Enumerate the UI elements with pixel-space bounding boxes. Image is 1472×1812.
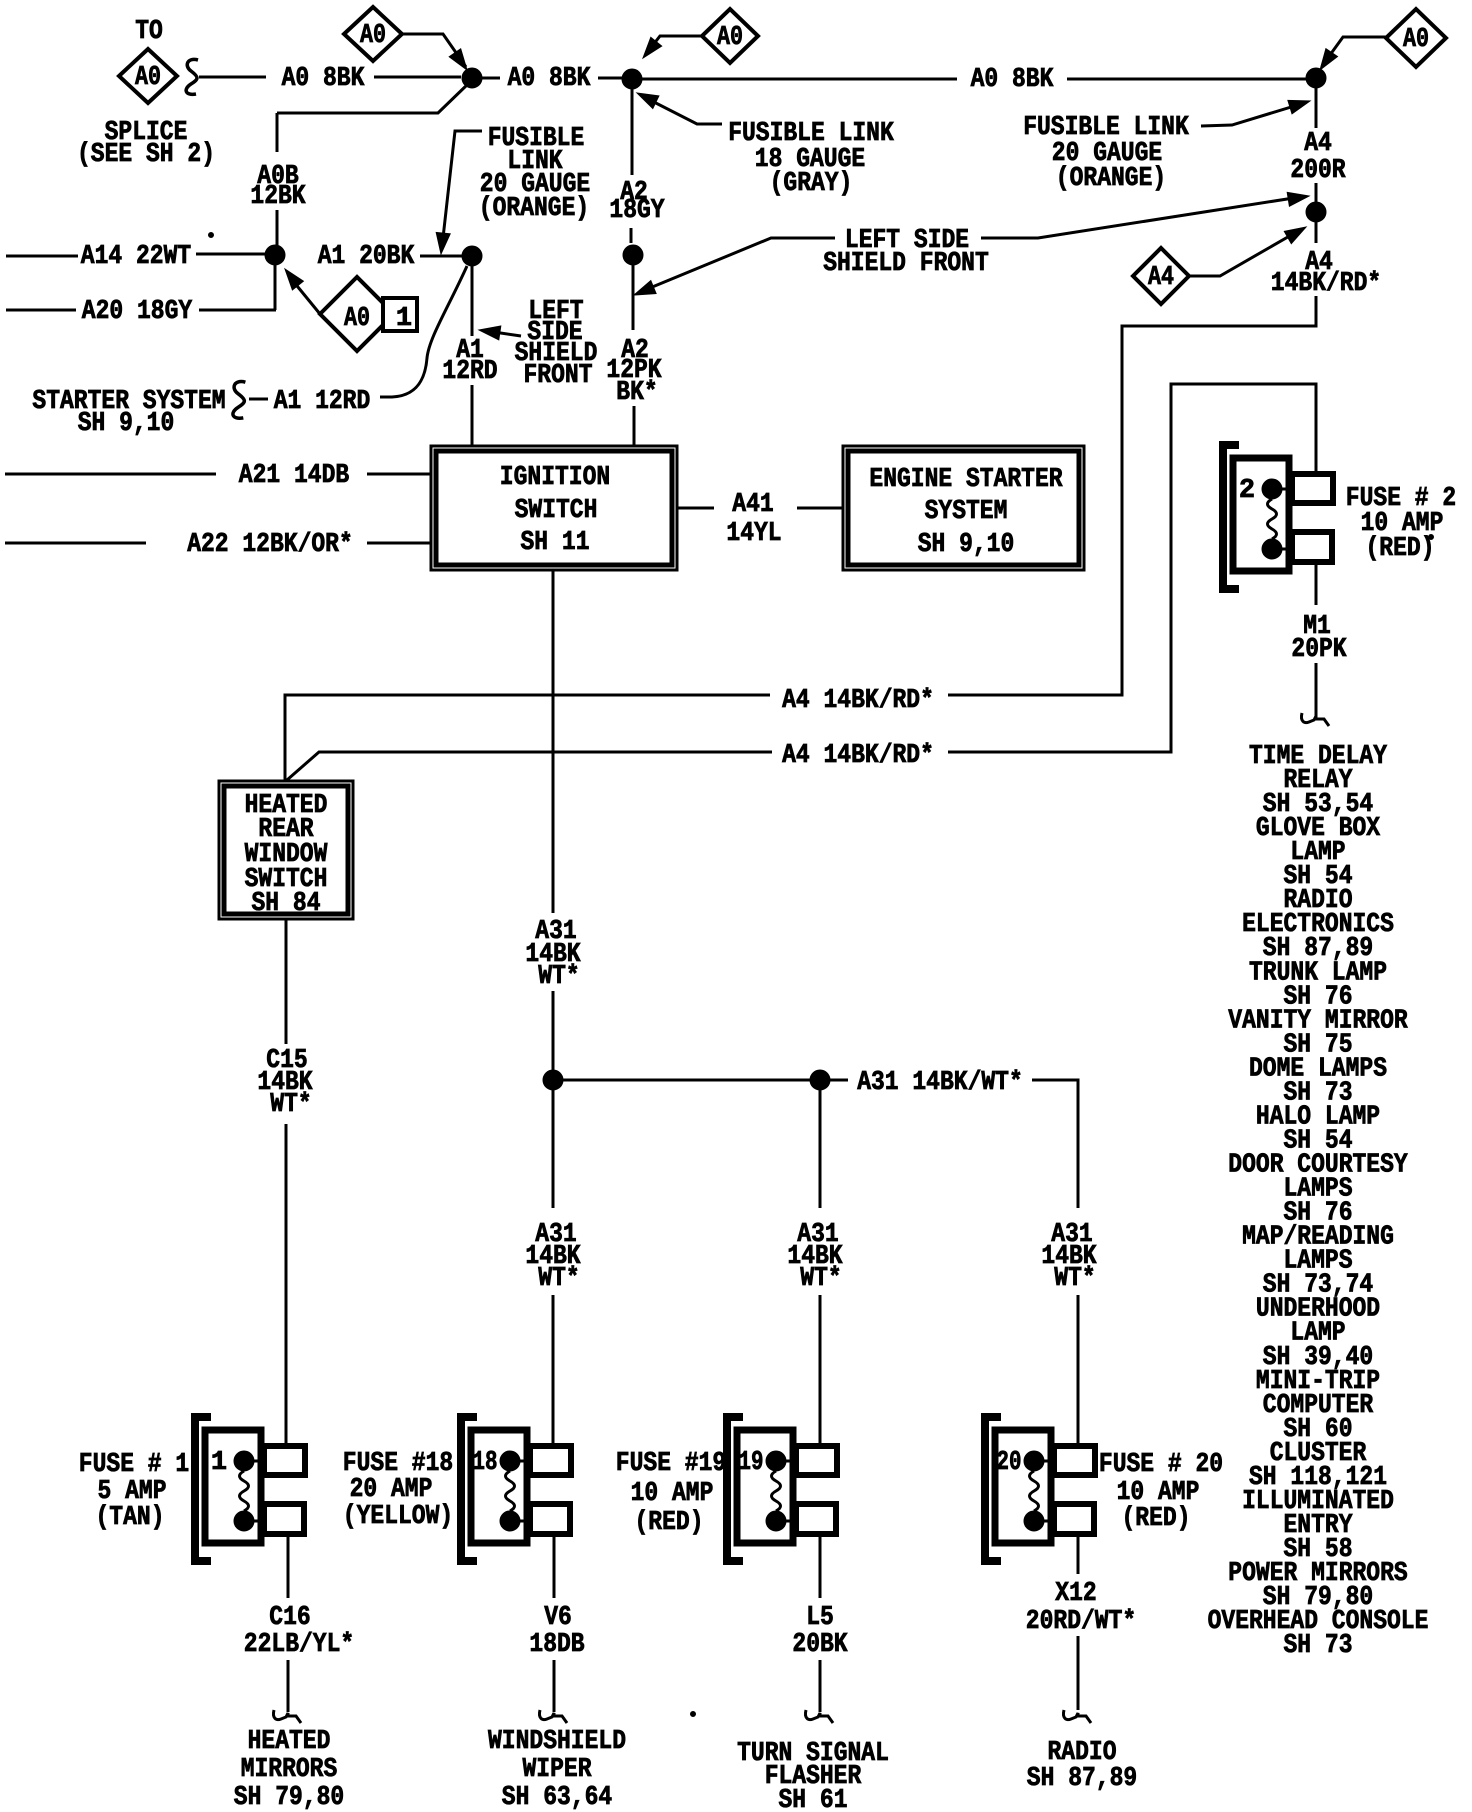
svg-text:20: 20: [997, 1448, 1022, 1478]
junction J4: [265, 245, 285, 265]
svg-text:20BK: 20BK: [792, 1630, 848, 1660]
speck: [209, 233, 214, 238]
wire A4 to corner: [948, 296, 1316, 695]
svg-text:WT*: WT*: [800, 1264, 841, 1294]
svg-text:A1 20BK: A1 20BK: [318, 242, 415, 272]
fuse F2 holder: [1223, 445, 1333, 589]
engine starter system box: [843, 446, 1084, 570]
junction J1: [462, 68, 482, 88]
wire A14 stub: [6, 255, 78, 258]
junction J2: [622, 69, 642, 89]
svg-text:(ORANGE): (ORANGE): [479, 194, 589, 224]
svg-text:22LB/YL*: 22LB/YL*: [244, 1630, 354, 1660]
wire A0 8BK segment: [374, 76, 461, 79]
svg-text:SH 11: SH 11: [521, 528, 590, 558]
ignition switch box: [431, 446, 677, 570]
fuse F20 holder: [985, 1417, 1095, 1561]
arrowhead to A1 12RD wire: [479, 326, 501, 340]
svg-text:A4 14BK/RD*: A4 14BK/RD*: [782, 686, 934, 716]
pointer orange-left: [443, 131, 482, 238]
wire A31 to corner: [1032, 1080, 1078, 1208]
wire A21 stub: [5, 473, 216, 476]
svg-text:A4: A4: [1304, 129, 1332, 159]
svg-text:A0 8BK: A0 8BK: [282, 64, 365, 94]
svg-text:SH 63,64: SH 63,64: [502, 1783, 612, 1812]
svg-text:200R: 200R: [1290, 156, 1346, 186]
speck: [691, 1712, 696, 1717]
continuation mark C16: [273, 1710, 301, 1723]
svg-text:WT*: WT*: [270, 1090, 311, 1120]
wire X12 b: [1077, 1636, 1080, 1710]
svg-text:SH 9,10: SH 9,10: [78, 409, 175, 439]
pointer orange-right: [1201, 104, 1301, 126]
arrowhead to wire A1: [436, 232, 450, 254]
wire A4 below J3: [1315, 88, 1318, 128]
wire A20 stub: [6, 309, 76, 312]
svg-text:SH 9,10: SH 9,10: [918, 530, 1015, 560]
wire A0B vertical: [276, 113, 279, 152]
svg-text:10 AMP: 10 AMP: [631, 1479, 714, 1509]
connector A4 diamond: [1133, 248, 1189, 304]
pointer from A0-1 diamond: [293, 281, 320, 314]
wire L5 b: [819, 1660, 822, 1712]
svg-text:(YELLOW): (YELLOW): [343, 1502, 453, 1532]
wire drop J7: [552, 1090, 555, 1208]
arrowhead to J3: [1320, 49, 1338, 70]
junction J8: [810, 1070, 830, 1090]
pointer right to A4: [981, 197, 1300, 238]
wire drop J8 b: [819, 1295, 822, 1446]
wire A0 8BK segment: [482, 77, 500, 80]
svg-text:2: 2: [1239, 476, 1255, 506]
wire from A4 diamond: [1189, 230, 1300, 276]
svg-text:20RD/WT*: 20RD/WT*: [1026, 1607, 1136, 1637]
wire A41 segment: [797, 507, 845, 510]
continuation mark V6: [539, 1710, 567, 1723]
wire drop J8: [819, 1090, 822, 1208]
connector A0 diamond 2: [344, 7, 402, 61]
svg-text:A4 14BK/RD*: A4 14BK/RD*: [782, 741, 934, 771]
svg-text:SH 79,80: SH 79,80: [234, 1783, 344, 1812]
svg-text:IGNITION: IGNITION: [500, 463, 610, 493]
junction J7: [543, 1070, 563, 1090]
svg-text:SH 61: SH 61: [779, 1786, 848, 1812]
junction J5: [462, 246, 482, 266]
svg-text:A20 18GY: A20 18GY: [82, 297, 193, 327]
fuse F1 holder: [195, 1417, 305, 1561]
arrowhead to J2: [643, 37, 662, 58]
svg-text:A0: A0: [360, 21, 386, 51]
wire A31 from switch: [552, 571, 555, 913]
wire A2 from J2: [631, 89, 634, 175]
svg-text:FUSE #19: FUSE #19: [616, 1449, 726, 1479]
speck: [1429, 535, 1434, 540]
wire A4 second into switch: [287, 752, 772, 780]
svg-text:WINDSHIELD: WINDSHIELD: [488, 1727, 626, 1757]
break squiggle starter: [233, 382, 245, 419]
svg-text:20 AMP: 20 AMP: [350, 1475, 433, 1505]
svg-text:A0: A0: [344, 304, 370, 334]
svg-text:A0 8BK: A0 8BK: [971, 65, 1054, 95]
svg-text:SHIELD FRONT: SHIELD FRONT: [823, 249, 989, 279]
wire A31 right stub: [830, 1079, 848, 1082]
wire C15 from switch: [285, 919, 288, 1044]
wire A0 8BK segment: [598, 77, 622, 80]
pointer from SIDE: [487, 331, 521, 336]
arrowhead to J1: [449, 49, 467, 70]
arrowhead to A4 wire: [1288, 100, 1310, 113]
arrowhead to A4 wire2: [1287, 192, 1309, 206]
svg-text:18: 18: [473, 1448, 498, 1478]
svg-text:(RED): (RED): [1122, 1504, 1191, 1534]
wire M1 segment: [1315, 663, 1318, 717]
wire A4 second riser: [948, 384, 1316, 752]
wire A4 segment: [1315, 183, 1318, 203]
svg-text:(SEE SH 2): (SEE SH 2): [77, 140, 215, 170]
wire C15 segment: [285, 1124, 288, 1446]
svg-text:TO: TO: [135, 17, 163, 47]
continuation mark M1: [1301, 713, 1329, 726]
svg-text:14BK/RD*: 14BK/RD*: [1271, 269, 1381, 299]
wire A1 20BK segment: [420, 255, 462, 258]
svg-text:1: 1: [211, 1448, 227, 1478]
arrowhead to J4: [285, 269, 303, 290]
wire A31 segment: [552, 991, 555, 1070]
wire from A0 diamond 2: [402, 34, 466, 67]
svg-text:19: 19: [739, 1448, 764, 1478]
wire M1 below fuse2: [1315, 562, 1318, 605]
svg-text:18GY: 18GY: [609, 196, 665, 226]
continuation mark X12: [1063, 1710, 1091, 1723]
svg-text:12BK: 12BK: [250, 182, 306, 212]
svg-text:MIRRORS: MIRRORS: [241, 1755, 338, 1785]
wire A1 12RD below J5: [471, 265, 474, 336]
svg-text:WT*: WT*: [538, 1264, 579, 1294]
wire A0 8BK segment: [199, 76, 266, 79]
svg-text:A1 12RD: A1 12RD: [274, 387, 371, 417]
wire from A0 diamond 3: [646, 36, 702, 54]
wire A2 into switch: [633, 406, 636, 447]
svg-text:ENGINE STARTER: ENGINE STARTER: [869, 465, 1063, 495]
svg-text:WT*: WT*: [1054, 1264, 1095, 1294]
heated rear window switch box: [219, 781, 353, 919]
svg-text:A41: A41: [732, 490, 773, 520]
svg-text:(GRAY): (GRAY): [770, 169, 853, 199]
wire A0B vertical segment: [276, 210, 279, 246]
connector A0-1 diamond: [320, 277, 394, 351]
svg-text:X12: X12: [1055, 1579, 1096, 1609]
svg-text:A0: A0: [717, 23, 743, 53]
svg-text:A31 14BK/WT*: A31 14BK/WT*: [857, 1068, 1023, 1098]
svg-text:SYSTEM: SYSTEM: [925, 497, 1008, 527]
connector A0 diamond (splice ref): [119, 49, 177, 103]
svg-text:(ORANGE): (ORANGE): [1056, 164, 1166, 194]
wire C16 b: [287, 1660, 290, 1712]
wire A2 dash: [630, 228, 633, 243]
svg-text:A22 12BK/OR*: A22 12BK/OR*: [187, 530, 353, 560]
connector index box 1: [383, 298, 417, 331]
svg-text:18DB: 18DB: [529, 1630, 584, 1660]
svg-text:BK*: BK*: [616, 378, 657, 408]
svg-text:A4: A4: [1148, 263, 1174, 293]
connector A0 diamond 3: [702, 9, 758, 63]
wire V6 b: [553, 1660, 556, 1712]
wire starter stub: [249, 398, 268, 401]
wire A1 into switch: [471, 385, 474, 447]
svg-text:A0 8BK: A0 8BK: [508, 64, 591, 94]
svg-text:14YL: 14YL: [726, 519, 781, 549]
wire V6: [553, 1532, 556, 1598]
svg-text:C16: C16: [269, 1603, 310, 1633]
svg-text:L5: L5: [806, 1603, 834, 1633]
svg-text:SH 84: SH 84: [252, 889, 321, 919]
svg-text:SWITCH: SWITCH: [515, 496, 598, 526]
pointer gray: [648, 99, 722, 124]
wire A20 riser: [274, 264, 277, 310]
svg-text:A14 22WT: A14 22WT: [81, 242, 191, 272]
continuation mark L5: [805, 1710, 833, 1723]
svg-text:WT*: WT*: [538, 962, 579, 992]
svg-text:V6: V6: [544, 1603, 572, 1633]
wire L5: [819, 1532, 822, 1598]
wire A0B diagonal from J1: [277, 83, 469, 113]
fuse F18 holder: [461, 1417, 571, 1561]
svg-text:SH 87,89: SH 87,89: [1027, 1764, 1137, 1794]
svg-text:(RED): (RED): [1366, 534, 1435, 564]
svg-text:1: 1: [396, 304, 412, 334]
svg-text:(RED): (RED): [635, 1508, 704, 1538]
wire A22 stub: [5, 542, 146, 545]
svg-text:FUSE # 20: FUSE # 20: [1099, 1450, 1223, 1480]
svg-text:(TAN): (TAN): [96, 1503, 165, 1533]
wire A1 curve to starter row: [380, 266, 467, 397]
wire A20 segment: [199, 309, 276, 312]
svg-text:A0: A0: [135, 63, 161, 93]
svg-text:A0: A0: [1403, 25, 1429, 55]
wire from A0 diamond 4: [1322, 37, 1386, 66]
fuse F19 holder: [727, 1417, 837, 1561]
wire X12: [1077, 1532, 1080, 1574]
wire C16: [287, 1532, 290, 1598]
svg-text:HEATED: HEATED: [248, 1727, 331, 1757]
svg-text:12RD: 12RD: [442, 357, 497, 387]
arrowhead to J6: [1284, 227, 1306, 244]
svg-text:20PK: 20PK: [1291, 635, 1347, 665]
wire A31 horizontal: [563, 1079, 810, 1082]
junction J6: [1306, 202, 1326, 222]
wire A0 8BK segment: [642, 78, 957, 81]
pointer left to A2: [645, 238, 835, 290]
svg-text:SH 73: SH 73: [1284, 1631, 1353, 1661]
svg-text:FUSE # 1: FUSE # 1: [79, 1450, 189, 1480]
wire A14 segment: [196, 253, 266, 256]
wire drop corner b: [1077, 1295, 1080, 1446]
connector A0 diamond 4: [1386, 9, 1446, 67]
wire A22 segment: [367, 542, 430, 545]
wire A0 8BK segment: [1067, 78, 1306, 81]
wire A4 below J6: [1315, 221, 1318, 243]
break squiggle: [186, 59, 198, 94]
wire A4 horiz to switch: [285, 695, 770, 780]
wire A41 stub: [677, 507, 714, 510]
svg-text:A21 14DB: A21 14DB: [239, 461, 349, 491]
arrowhead to J2 wire: [637, 93, 659, 109]
svg-text:FRONT: FRONT: [524, 361, 593, 391]
arrowhead to A2 wire: [634, 281, 656, 295]
wire A2 below dot: [632, 264, 635, 330]
svg-text:WIPER: WIPER: [523, 1755, 593, 1785]
wire drop J7 b: [552, 1295, 555, 1446]
junction A2: [623, 245, 643, 265]
wire A21 segment: [367, 473, 430, 476]
junction J3: [1306, 68, 1326, 88]
